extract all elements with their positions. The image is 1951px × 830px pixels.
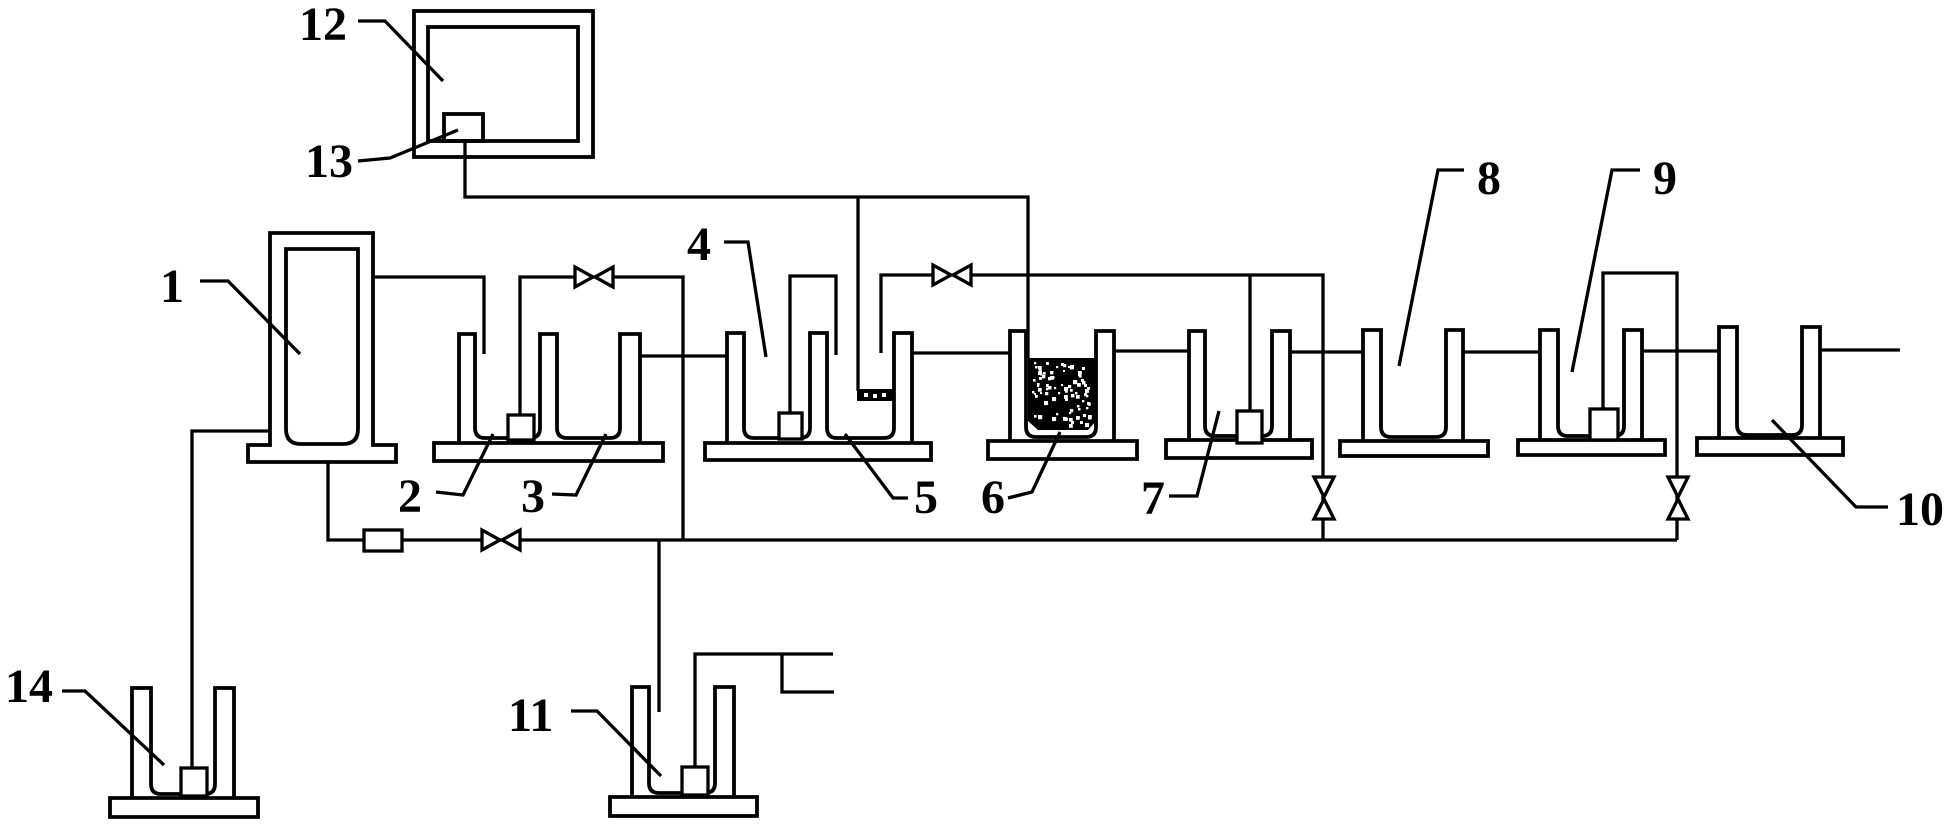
gas cylinder 1 inner liner xyxy=(286,249,358,444)
valve on vessel 5 pipe xyxy=(933,265,951,285)
svg-text:11: 11 xyxy=(508,689,553,742)
svg-text:1: 1 xyxy=(160,260,184,313)
svg-text:4: 4 xyxy=(687,218,711,271)
tube vessel 7 to vessel 8 xyxy=(1290,350,1363,353)
flow meter on drain line xyxy=(364,530,402,551)
pipe from vessel 5 to drain via valves xyxy=(881,275,1323,540)
outlet tube from vessel 10 xyxy=(1820,348,1900,351)
sensor box in vessel 7 xyxy=(1237,411,1262,443)
vessel 7 station xyxy=(1166,440,1312,458)
pipe from cylinder 1 into vessel 2 xyxy=(373,277,484,354)
svg-text:10: 10 xyxy=(1896,483,1944,536)
line from cylinder 1 to sensor in beaker 14 xyxy=(192,431,270,768)
svg-text:7: 7 xyxy=(1141,472,1165,525)
svg-text:5: 5 xyxy=(914,471,938,524)
bridge tube between vessels 4 and 5 xyxy=(790,276,836,413)
pipe from vessel 2 sensor to drain line xyxy=(520,277,683,539)
controller box 12 outer xyxy=(414,11,593,157)
valve on drain line xyxy=(482,530,500,550)
svg-text:6: 6 xyxy=(981,471,1005,524)
pipe from vessel 9 sensor to drain line xyxy=(1603,273,1677,540)
vessel 6 station xyxy=(988,441,1137,459)
vertical valve under vessel 7 branch xyxy=(1314,477,1334,497)
beaker 14 station xyxy=(110,798,258,817)
svg-text:9: 9 xyxy=(1653,152,1677,205)
sensor box in beaker 14 xyxy=(181,768,207,796)
vessel 9 station xyxy=(1518,440,1665,455)
controller box 12 inner xyxy=(428,27,578,141)
wire from pipe to sensor in vessel 7 xyxy=(1248,275,1251,411)
sensor box in vessel 2 xyxy=(508,415,534,440)
svg-text:2: 2 xyxy=(398,470,422,523)
wire from 13 to block 6 xyxy=(465,141,1028,358)
vessels 2 and 3 shared station xyxy=(434,443,663,461)
svg-text:3: 3 xyxy=(521,470,545,523)
electrode bar in vessel 5 xyxy=(857,389,894,401)
vent step line xyxy=(782,654,834,692)
vessels 4 and 5 shared station xyxy=(705,443,931,460)
svg-text:12: 12 xyxy=(299,0,347,51)
drain line from cylinder base xyxy=(328,462,1677,540)
svg-text:14: 14 xyxy=(5,660,53,713)
tube vessel 3 to vessel 4 xyxy=(640,354,727,357)
sensor box in vessel 4 xyxy=(779,413,802,439)
drop line from drain into beaker 11 xyxy=(657,541,660,712)
svg-text:8: 8 xyxy=(1477,152,1501,205)
tube vessel 5 to vessel 6 xyxy=(912,351,1010,354)
tube vessel 6 to vessel 7 xyxy=(1114,349,1189,352)
beaker 11 station xyxy=(610,797,757,816)
sensor box in vessel 9 xyxy=(1590,409,1618,440)
wire branch to electrode bar in vessel 5 xyxy=(856,197,859,391)
valve on vessel 2 pipe xyxy=(575,267,593,287)
packed filter block 6 xyxy=(1028,358,1096,430)
vessel 8 station xyxy=(1340,441,1488,456)
svg-text:13: 13 xyxy=(305,135,353,188)
tube vessel 9 to vessel 10 xyxy=(1642,349,1719,352)
sensor module 13 inside box 12 xyxy=(444,114,483,141)
gas cylinder 1 outer xyxy=(248,233,396,462)
vessel 10 station xyxy=(1697,438,1843,455)
tube vessel 8 to vessel 9 xyxy=(1463,350,1540,353)
vent line from sensor in beaker 11 xyxy=(695,654,833,767)
sensor box in beaker 11 xyxy=(682,767,708,795)
vertical valve under vessel 9 branch xyxy=(1668,477,1688,497)
